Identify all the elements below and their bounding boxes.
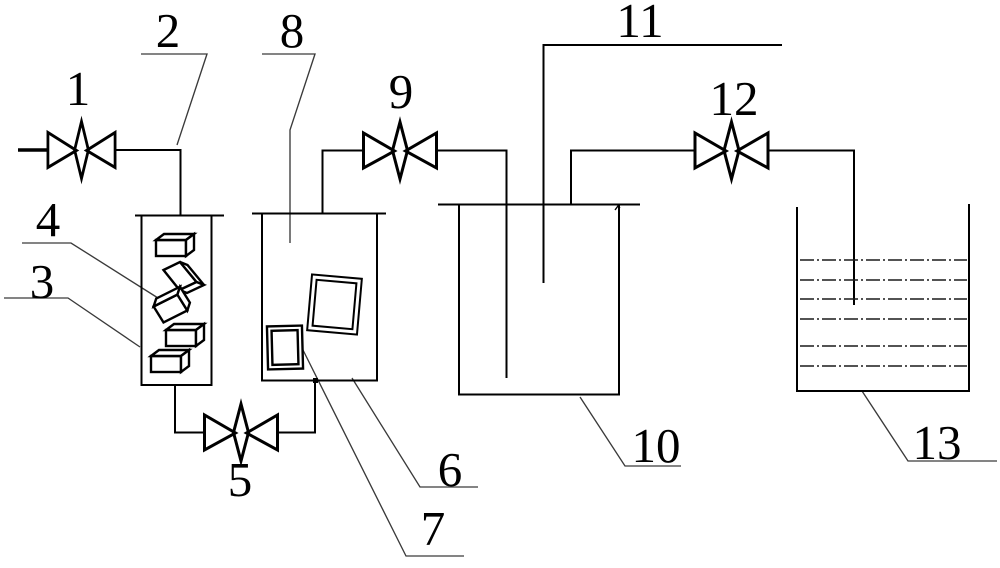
svg-text:6: 6 bbox=[438, 442, 463, 497]
svg-text:9: 9 bbox=[389, 64, 414, 119]
svg-text:12: 12 bbox=[710, 71, 759, 126]
svg-text:11: 11 bbox=[616, 0, 663, 48]
svg-text:10: 10 bbox=[632, 418, 681, 473]
svg-text:7: 7 bbox=[421, 501, 446, 556]
svg-text:1: 1 bbox=[66, 61, 91, 116]
svg-text:3: 3 bbox=[30, 254, 55, 309]
svg-text:2: 2 bbox=[156, 3, 181, 58]
svg-text:8: 8 bbox=[280, 3, 305, 58]
svg-text:4: 4 bbox=[36, 192, 61, 247]
svg-text:5: 5 bbox=[228, 452, 253, 507]
svg-text:13: 13 bbox=[913, 415, 962, 470]
